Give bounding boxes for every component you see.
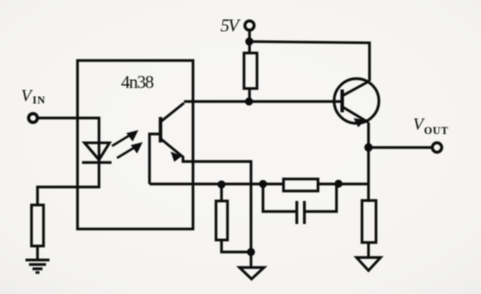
- svg-text:4n38: 4n38: [121, 72, 154, 92]
- svg-text:OUT: OUT: [424, 126, 449, 137]
- svg-text:IN: IN: [33, 96, 46, 107]
